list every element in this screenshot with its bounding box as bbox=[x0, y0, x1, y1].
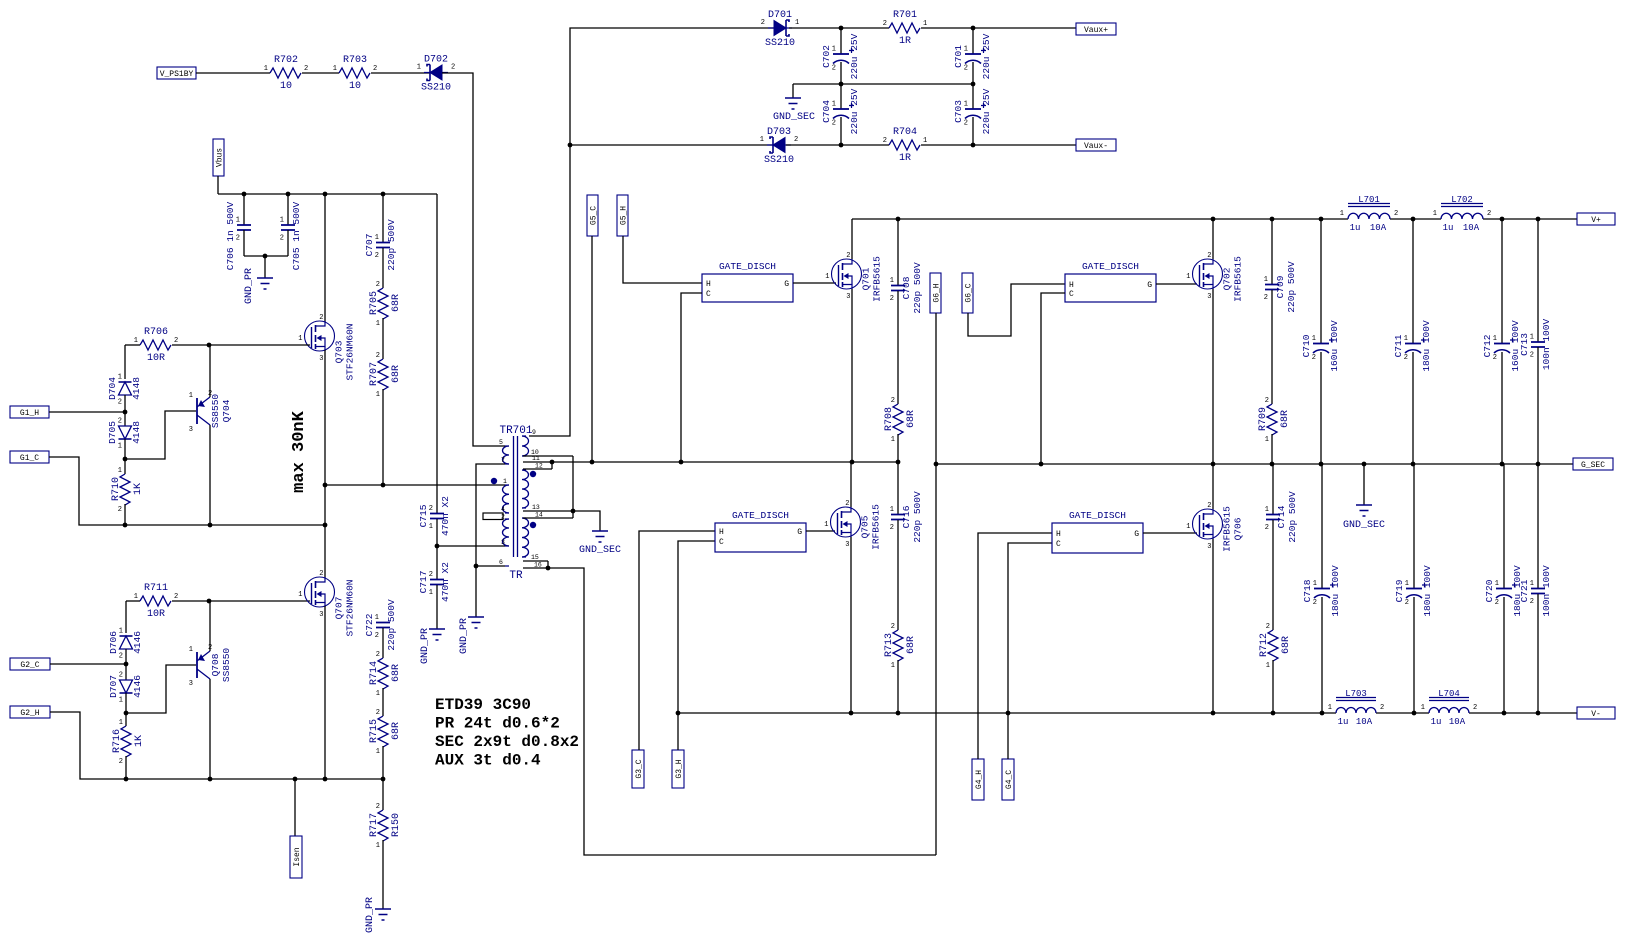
wire pin 10 to pin 13 bbox=[572, 456, 574, 511]
svg-text:C710: C710 bbox=[1301, 334, 1312, 357]
wire C702 to gnd rail bbox=[840, 62, 842, 109]
wire G_SEC rail bbox=[936, 463, 1573, 465]
resistor R716 bbox=[112, 719, 145, 766]
wire R705 to R707 bbox=[382, 318, 384, 359]
port G1_C bbox=[10, 451, 49, 463]
svg-text:3: 3 bbox=[189, 680, 193, 688]
svg-text:220p 500V: 220p 500V bbox=[386, 599, 397, 651]
wire U1 G to Q701 bbox=[793, 282, 836, 284]
svg-text:C722: C722 bbox=[364, 613, 375, 636]
svg-text:1: 1 bbox=[236, 217, 240, 225]
wire Q708 emitter bbox=[209, 601, 211, 651]
svg-text:Q704: Q704 bbox=[221, 399, 232, 422]
wire R716 top bbox=[125, 713, 127, 726]
svg-text:2: 2 bbox=[319, 570, 323, 578]
svg-text:C713: C713 bbox=[1519, 333, 1530, 356]
svg-text:C: C bbox=[1069, 290, 1074, 299]
inductor L702 bbox=[1433, 195, 1491, 233]
capacitor C704 bbox=[821, 88, 860, 134]
svg-text:220u 25V: 220u 25V bbox=[849, 88, 860, 134]
svg-text:1: 1 bbox=[832, 46, 836, 54]
wire TR701 pin 7 to GND_PR bbox=[476, 464, 505, 617]
wire Vbus drop bbox=[217, 176, 219, 194]
port Vaux- bbox=[1076, 139, 1116, 151]
junction bbox=[839, 82, 844, 87]
junction bbox=[1319, 462, 1324, 467]
junction bbox=[293, 777, 298, 782]
svg-text:IRFB5615: IRFB5615 bbox=[1222, 506, 1233, 552]
svg-text:1u: 1u bbox=[1338, 717, 1349, 727]
svg-text:C709: C709 bbox=[1275, 275, 1286, 298]
port Isen bbox=[290, 836, 302, 878]
wire C718 down bbox=[1321, 597, 1323, 713]
capacitor C715 bbox=[418, 496, 451, 536]
wire R704 to Vaux- bbox=[921, 144, 1076, 146]
svg-text:1: 1 bbox=[824, 521, 828, 529]
svg-text:1: 1 bbox=[118, 467, 122, 475]
wire R706 left bbox=[125, 344, 140, 346]
svg-text:V+: V+ bbox=[1591, 216, 1601, 225]
svg-text:10: 10 bbox=[349, 81, 361, 92]
svg-text:C707: C707 bbox=[364, 234, 375, 257]
wire node to D705 bbox=[124, 412, 126, 426]
svg-text:L704: L704 bbox=[1438, 689, 1460, 699]
port G2_H bbox=[10, 706, 50, 718]
svg-text:Q708: Q708 bbox=[210, 653, 221, 676]
svg-text:180u 100V: 180u 100V bbox=[1422, 565, 1433, 617]
svg-text:1: 1 bbox=[298, 335, 302, 343]
junction bbox=[323, 192, 328, 197]
resistor R715 bbox=[369, 709, 402, 756]
svg-text:C719: C719 bbox=[1394, 579, 1405, 602]
capacitor C712 bbox=[1482, 320, 1521, 372]
svg-text:1K: 1K bbox=[134, 735, 145, 747]
svg-text:SEC 2x9t d0.8x2: SEC 2x9t d0.8x2 bbox=[435, 733, 579, 751]
wire C721 down bbox=[1537, 594, 1539, 713]
wire Q706 source bbox=[1212, 539, 1214, 713]
svg-text:Vbus: Vbus bbox=[216, 148, 225, 167]
svg-text:G: G bbox=[784, 280, 789, 289]
svg-text:1: 1 bbox=[118, 374, 122, 382]
wire pin 15 link bbox=[547, 561, 549, 568]
resistor R709 bbox=[1258, 397, 1291, 444]
svg-text:R707: R707 bbox=[369, 362, 380, 386]
svg-text:220p 500V: 220p 500V bbox=[1287, 491, 1298, 543]
svg-text:G: G bbox=[797, 528, 802, 537]
svg-text:180u 100V: 180u 100V bbox=[1330, 565, 1341, 617]
wire R710 bottom bbox=[124, 504, 126, 525]
wire TR701 pin 15 stub bbox=[523, 560, 548, 562]
svg-text:220p 500V: 220p 500V bbox=[912, 262, 923, 314]
svg-text:2: 2 bbox=[1404, 354, 1408, 362]
capacitor C710 bbox=[1301, 320, 1340, 372]
svg-text:1: 1 bbox=[429, 523, 433, 531]
svg-text:68R: 68R bbox=[391, 365, 402, 383]
capacitor C706 bbox=[236, 217, 251, 243]
wire C703 bottom bbox=[972, 117, 974, 145]
svg-text:1: 1 bbox=[1405, 580, 1409, 588]
svg-text:Q701: Q701 bbox=[861, 267, 872, 290]
transformer TR701 secondary winding 12-13 bbox=[522, 470, 529, 508]
wire R708 to net bbox=[897, 434, 899, 462]
svg-text:4: 4 bbox=[501, 506, 505, 513]
junction bbox=[1271, 711, 1276, 716]
svg-text:1: 1 bbox=[333, 65, 337, 73]
svg-text:D703: D703 bbox=[767, 127, 791, 138]
svg-text:9: 9 bbox=[532, 429, 536, 436]
svg-text:68R: 68R bbox=[1280, 410, 1291, 428]
wire D703 to C704 bbox=[786, 144, 889, 146]
wire D701 to C702 bbox=[789, 27, 889, 29]
wire C701 top bbox=[972, 28, 974, 54]
svg-text:G5_H: G5_H bbox=[620, 206, 629, 225]
wire V_PS1BY to R702 bbox=[196, 72, 270, 74]
svg-text:1: 1 bbox=[1266, 662, 1270, 670]
wire D704 to node bbox=[124, 395, 126, 412]
wire TR701 pin 1 rail bbox=[325, 484, 505, 486]
wire C705 top bbox=[287, 194, 289, 225]
svg-text:GATE_DISCH: GATE_DISCH bbox=[1082, 261, 1139, 272]
transistor Q702 bbox=[1186, 252, 1243, 302]
junction bbox=[1411, 462, 1416, 467]
svg-text:IRFB5615: IRFB5615 bbox=[871, 504, 882, 550]
junction bbox=[546, 566, 551, 571]
svg-text:D701: D701 bbox=[768, 10, 792, 21]
svg-text:1: 1 bbox=[923, 20, 927, 28]
svg-text:R150: R150 bbox=[391, 813, 402, 837]
svg-text:2: 2 bbox=[236, 235, 240, 243]
wire V- rail b bbox=[1376, 712, 1429, 714]
junction bbox=[208, 777, 213, 782]
wire C705 bottom bbox=[287, 230, 289, 256]
svg-text:R712: R712 bbox=[1259, 633, 1270, 657]
svg-text:G_SEC: G_SEC bbox=[1581, 461, 1605, 470]
svg-text:R708: R708 bbox=[884, 407, 895, 431]
svg-text:1: 1 bbox=[280, 217, 284, 225]
wire Q703 source bbox=[324, 350, 326, 485]
svg-text:1: 1 bbox=[118, 443, 122, 451]
svg-text:D702: D702 bbox=[424, 55, 448, 66]
junction bbox=[1536, 462, 1541, 467]
svg-text:2: 2 bbox=[890, 295, 894, 303]
ground GND_PR bottom-left bbox=[375, 909, 391, 920]
resistor R712 bbox=[1259, 623, 1292, 670]
capacitor C720 bbox=[1484, 565, 1523, 617]
wire GND_SEC right stub bbox=[1363, 464, 1365, 505]
svg-text:R709: R709 bbox=[1258, 407, 1269, 431]
svg-text:Vaux+: Vaux+ bbox=[1084, 26, 1108, 35]
wire U2 G to Q702 bbox=[1156, 283, 1197, 285]
transistor Q705 bbox=[824, 500, 881, 550]
svg-text:Vaux-: Vaux- bbox=[1084, 142, 1108, 151]
svg-text:C704: C704 bbox=[821, 100, 832, 123]
svg-text:R711: R711 bbox=[144, 583, 168, 594]
junction bbox=[263, 254, 268, 259]
wire U3 H bbox=[639, 531, 715, 750]
ground GND_SEC under TR701 bbox=[592, 531, 608, 542]
svg-text:SS8550: SS8550 bbox=[221, 648, 232, 683]
svg-text:C714: C714 bbox=[1276, 505, 1287, 528]
junction bbox=[381, 777, 386, 782]
svg-text:Q705: Q705 bbox=[860, 515, 871, 538]
junction bbox=[1412, 711, 1417, 716]
svg-text:1: 1 bbox=[1421, 704, 1425, 712]
svg-text:68R: 68R bbox=[1281, 636, 1292, 654]
svg-text:2: 2 bbox=[1495, 599, 1499, 607]
wire C709 to R709 bbox=[1271, 290, 1273, 404]
junction bbox=[1211, 462, 1216, 467]
junction bbox=[839, 143, 844, 148]
junction bbox=[1411, 217, 1416, 222]
junction bbox=[323, 523, 328, 528]
svg-text:1: 1 bbox=[134, 593, 138, 601]
svg-text:220u 25V: 220u 25V bbox=[981, 33, 992, 79]
port G3_H bbox=[672, 750, 684, 788]
wire G5_H bbox=[623, 236, 702, 283]
transistor Q704 bbox=[189, 390, 232, 434]
svg-text:2: 2 bbox=[891, 623, 895, 631]
resistor R703 bbox=[333, 55, 377, 92]
junction bbox=[1502, 711, 1507, 716]
wire R714 to R715 bbox=[382, 688, 384, 716]
junction bbox=[207, 599, 212, 604]
capacitor C717 bbox=[418, 562, 451, 602]
junction bbox=[568, 143, 573, 148]
resistor R714 bbox=[369, 651, 402, 698]
junction bbox=[571, 509, 576, 514]
svg-text:C703: C703 bbox=[953, 100, 964, 123]
diode D701 bbox=[761, 10, 799, 49]
wire TR701 pin 13 to GND_SEC bbox=[523, 511, 600, 531]
wire V- rail c bbox=[1469, 712, 1577, 714]
wire node to C717 bbox=[436, 546, 438, 579]
svg-text:R703: R703 bbox=[343, 55, 367, 66]
junction bbox=[971, 82, 976, 87]
wire R713 to rail bbox=[897, 660, 899, 713]
junction bbox=[435, 544, 440, 549]
wire rail to R717 bbox=[382, 779, 384, 810]
wire R710 top bbox=[124, 459, 126, 474]
svg-text:2: 2 bbox=[451, 64, 455, 72]
wire C701 to gnd rail bbox=[972, 62, 974, 109]
svg-text:2: 2 bbox=[119, 758, 123, 766]
transformer TR701 secondary winding 9-10 bbox=[522, 436, 529, 456]
svg-text:2: 2 bbox=[429, 505, 433, 513]
svg-text:1: 1 bbox=[119, 697, 123, 705]
svg-text:1u: 1u bbox=[1431, 717, 1442, 727]
svg-text:1: 1 bbox=[298, 591, 302, 599]
wire D707 to node bbox=[125, 693, 127, 713]
wire C717 to GND_PR bbox=[436, 585, 438, 629]
svg-text:R715: R715 bbox=[369, 719, 380, 743]
wire net to C719 bbox=[1413, 464, 1415, 588]
svg-text:Q703: Q703 bbox=[334, 340, 345, 363]
polarity dot bbox=[530, 522, 536, 528]
svg-text:Q706: Q706 bbox=[1233, 517, 1244, 540]
svg-text:D704: D704 bbox=[107, 377, 118, 400]
wire D706 to node bbox=[125, 649, 127, 664]
svg-text:C: C bbox=[706, 290, 711, 299]
svg-text:2: 2 bbox=[1530, 352, 1534, 360]
resistor R704 bbox=[883, 127, 927, 164]
wire rail to C709 bbox=[1271, 219, 1273, 284]
port G6_C bbox=[962, 273, 974, 313]
svg-text:1: 1 bbox=[375, 234, 379, 242]
wire C711 down bbox=[1412, 352, 1414, 464]
svg-text:1: 1 bbox=[1264, 276, 1268, 284]
svg-text:PR 24t d0.6*2: PR 24t d0.6*2 bbox=[435, 715, 560, 733]
inductor L701 bbox=[1340, 195, 1398, 233]
junction bbox=[679, 460, 684, 465]
svg-text:GND_SEC: GND_SEC bbox=[773, 112, 815, 123]
svg-text:D706: D706 bbox=[108, 631, 119, 654]
svg-text:1: 1 bbox=[1495, 580, 1499, 588]
svg-text:C702: C702 bbox=[821, 45, 832, 68]
wire TR701 pin 12 stub bbox=[523, 468, 552, 470]
ground GND_SEC right bbox=[1356, 505, 1372, 516]
svg-text:1: 1 bbox=[1265, 436, 1269, 444]
resistor R717 bbox=[369, 803, 402, 850]
junction bbox=[208, 523, 213, 528]
wire TR701 pin 11 rail start bbox=[523, 461, 898, 463]
svg-text:R716: R716 bbox=[112, 729, 123, 753]
wire node to driver rail bbox=[324, 485, 326, 525]
transistor Q708 bbox=[189, 644, 232, 688]
wire G5_C bbox=[591, 236, 593, 462]
svg-text:2: 2 bbox=[1265, 524, 1269, 532]
svg-text:10R: 10R bbox=[147, 609, 165, 620]
wire U4 C bbox=[1008, 543, 1052, 713]
junction bbox=[1039, 462, 1044, 467]
svg-text:3: 3 bbox=[319, 355, 323, 363]
svg-text:AUX 3t d0.4: AUX 3t d0.4 bbox=[435, 752, 541, 770]
svg-text:V-: V- bbox=[1591, 710, 1601, 719]
svg-text:R717: R717 bbox=[369, 813, 380, 837]
wire G2_H down bbox=[50, 712, 383, 779]
junction bbox=[1536, 217, 1541, 222]
transistor Q701 bbox=[825, 252, 882, 302]
svg-text:4146: 4146 bbox=[132, 675, 143, 698]
svg-text:1: 1 bbox=[1265, 506, 1269, 514]
wire Q707 source bbox=[324, 606, 326, 779]
svg-text:10A: 10A bbox=[1463, 223, 1480, 233]
svg-text:1: 1 bbox=[890, 277, 894, 285]
svg-text:2: 2 bbox=[890, 524, 894, 532]
svg-text:1: 1 bbox=[503, 478, 507, 485]
svg-text:2: 2 bbox=[964, 65, 968, 73]
diode D706 bbox=[108, 628, 143, 661]
wire C708 to R708 bbox=[897, 291, 899, 404]
svg-text:1: 1 bbox=[189, 646, 193, 654]
svg-text:1: 1 bbox=[1186, 273, 1190, 281]
junction bbox=[896, 711, 901, 716]
wire rail to C708 bbox=[897, 219, 899, 285]
port V- bbox=[1577, 707, 1615, 719]
svg-text:G2_C: G2_C bbox=[20, 661, 39, 670]
svg-text:G3_C: G3_C bbox=[635, 759, 644, 778]
svg-text:2: 2 bbox=[429, 571, 433, 579]
svg-text:2: 2 bbox=[891, 397, 895, 405]
svg-text:GATE_DISCH: GATE_DISCH bbox=[1069, 510, 1126, 521]
wire V+ rail a bbox=[852, 218, 1348, 220]
wire V- rail a bbox=[678, 712, 1336, 714]
wire TR701 pin 3 stub bbox=[437, 545, 505, 547]
junction bbox=[1270, 217, 1275, 222]
svg-text:C706 1n 500V: C706 1n 500V bbox=[225, 202, 236, 271]
svg-text:G3_H: G3_H bbox=[675, 759, 684, 778]
wire C716 to R713 bbox=[897, 520, 899, 630]
wire net to C714 bbox=[1272, 464, 1274, 514]
junction bbox=[123, 457, 128, 462]
svg-text:220u 25V: 220u 25V bbox=[981, 88, 992, 134]
svg-text:D705: D705 bbox=[107, 421, 118, 444]
svg-text:1: 1 bbox=[376, 391, 380, 399]
capacitor C702 bbox=[821, 33, 860, 79]
svg-text:2: 2 bbox=[280, 235, 284, 243]
polarity dot bbox=[491, 478, 497, 484]
svg-text:C712: C712 bbox=[1482, 334, 1493, 357]
wire D703 rail bbox=[570, 144, 773, 146]
wire TR701 pin 6 stub bbox=[476, 565, 505, 567]
svg-text:STF26NM60N: STF26NM60N bbox=[345, 579, 356, 636]
diode D703 bbox=[760, 127, 798, 166]
svg-text:4148: 4148 bbox=[131, 421, 142, 444]
svg-text:220u 25V: 220u 25V bbox=[849, 33, 860, 79]
svg-text:470n X2: 470n X2 bbox=[440, 562, 451, 602]
svg-text:1: 1 bbox=[119, 628, 123, 636]
wire to GND_PR bbox=[264, 256, 266, 278]
transformer pin leads right bbox=[522, 436, 526, 557]
svg-text:G4_C: G4_C bbox=[1005, 770, 1014, 789]
svg-text:220p 500V: 220p 500V bbox=[912, 491, 923, 543]
svg-text:Q707: Q707 bbox=[334, 597, 345, 620]
wire TR701 pin 16 long bbox=[523, 568, 936, 855]
svg-text:10R: 10R bbox=[147, 353, 165, 364]
svg-text:1: 1 bbox=[891, 436, 895, 444]
svg-text:2: 2 bbox=[883, 137, 887, 145]
svg-text:1R: 1R bbox=[899, 36, 911, 47]
wire C702 top bbox=[840, 28, 842, 54]
port G5_C bbox=[587, 195, 599, 236]
svg-text:R704: R704 bbox=[893, 127, 917, 138]
capacitor C705 bbox=[280, 217, 295, 243]
wire aux gnd rail bbox=[793, 83, 973, 85]
svg-text:2: 2 bbox=[319, 314, 323, 322]
port G4_H bbox=[972, 759, 984, 800]
junction bbox=[123, 523, 128, 528]
svg-text:1R: 1R bbox=[899, 153, 911, 164]
wire Vbus to C707 bbox=[382, 194, 384, 242]
wire C714 to R712 bbox=[1272, 520, 1274, 630]
junction bbox=[286, 192, 291, 197]
port Vbus bbox=[213, 139, 225, 176]
capacitor C709 bbox=[1264, 261, 1297, 313]
port G5_H bbox=[617, 195, 629, 236]
svg-text:3: 3 bbox=[319, 611, 323, 619]
diode D702 bbox=[417, 55, 455, 94]
transformer TR701 secondary winding 14-15 bbox=[522, 518, 529, 557]
svg-text:3: 3 bbox=[1207, 293, 1211, 301]
block GATE_DISCH U2 bbox=[1065, 261, 1156, 302]
svg-text:10A: 10A bbox=[1370, 223, 1387, 233]
svg-text:L701: L701 bbox=[1358, 195, 1380, 205]
capacitor C701 bbox=[953, 33, 992, 79]
junction bbox=[123, 410, 128, 415]
svg-text:3: 3 bbox=[189, 426, 193, 434]
junction bbox=[849, 711, 854, 716]
svg-text:68R: 68R bbox=[906, 410, 917, 428]
capacitor C707 bbox=[364, 219, 397, 271]
